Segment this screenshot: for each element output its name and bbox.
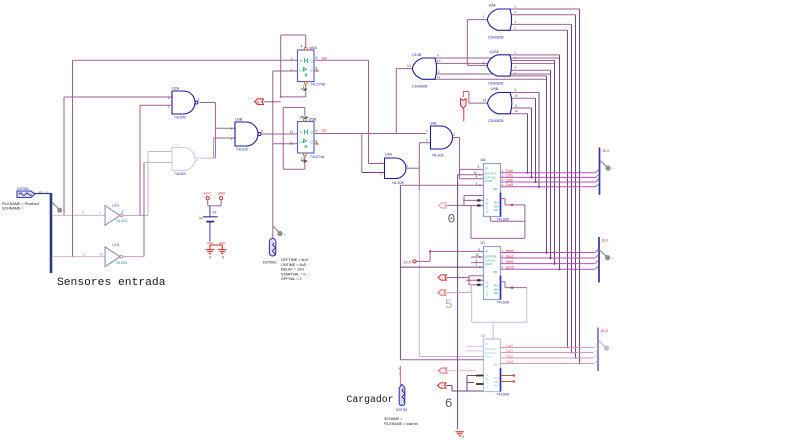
- svg-text:A: A: [486, 198, 488, 202]
- svg-text:74LS00: 74LS00: [174, 116, 186, 120]
- svg-text:CD4082B: CD4082B: [488, 35, 504, 39]
- svg-text:11: 11: [437, 70, 440, 74]
- svg-text:U10A: U10A: [490, 50, 500, 54]
- svg-text:5: 5: [445, 297, 453, 312]
- svg-text:MIN: MIN: [494, 209, 499, 212]
- svg-text:U2B: U2B: [172, 143, 180, 147]
- svg-text:U2A: U2A: [172, 87, 180, 91]
- svg-text:74LS10: 74LS10: [236, 148, 248, 152]
- svg-text:A: A: [486, 373, 488, 377]
- svg-text:4: 4: [515, 20, 517, 24]
- svg-text:CLK: CLK: [299, 141, 304, 144]
- svg-text:Cnt2: Cnt2: [506, 178, 513, 182]
- svg-text:6: 6: [445, 396, 453, 411]
- svg-text:11: 11: [515, 103, 518, 107]
- svg-text:1: 1: [483, 15, 485, 19]
- svg-text:U6: U6: [481, 158, 486, 162]
- svg-text:RCO: RCO: [494, 202, 500, 205]
- svg-text:2: 2: [515, 4, 517, 8]
- svg-text:74LS74A: 74LS74A: [311, 82, 326, 86]
- svg-text:VDD: VDD: [218, 191, 226, 195]
- svg-text:4: 4: [515, 66, 517, 70]
- svg-text:Cnt1: Cnt1: [506, 174, 513, 178]
- svg-text:74LS90: 74LS90: [497, 393, 510, 397]
- svg-text:VCC: VCC: [404, 260, 412, 264]
- svg-text:9: 9: [82, 211, 84, 215]
- svg-text:Cargador: Cargador: [347, 394, 394, 405]
- svg-text:Car2: Car2: [506, 354, 514, 358]
- svg-text:D: D: [486, 293, 488, 297]
- svg-text:CD4082B: CD4082B: [488, 119, 504, 123]
- svg-text:3: 3: [407, 164, 409, 168]
- svg-text:5: 5: [515, 26, 517, 30]
- svg-text:MIN: MIN: [494, 385, 499, 388]
- svg-text:10: 10: [437, 59, 441, 63]
- svg-text:74LS08: 74LS08: [392, 181, 404, 185]
- svg-text:VCC: VCC: [204, 191, 212, 195]
- svg-text:U4B: U4B: [430, 122, 438, 126]
- svg-text:CLK: CLK: [299, 70, 304, 73]
- svg-text:U4A: U4A: [385, 153, 393, 157]
- svg-text:B: B: [486, 285, 488, 289]
- svg-text:6: 6: [261, 130, 263, 134]
- svg-text:C: C: [486, 381, 488, 385]
- svg-text:11: 11: [290, 141, 294, 145]
- svg-text:DSTIM: DSTIM: [396, 408, 407, 412]
- svg-text:D: D: [486, 385, 488, 389]
- svg-text:2: 2: [122, 210, 124, 214]
- svg-text:5: 5: [478, 165, 480, 169]
- svg-text:QB: QB: [493, 187, 497, 191]
- svg-text:DELAY = 10m: DELAY = 10m: [281, 268, 304, 272]
- svg-text:DSTIM: DSTIM: [17, 187, 28, 191]
- svg-text:11: 11: [82, 253, 86, 257]
- svg-text:2: 2: [380, 172, 382, 176]
- svg-text:J0-0: J0-0: [602, 149, 609, 153]
- svg-text:10: 10: [515, 94, 519, 98]
- svg-text:MAX: MAX: [494, 381, 500, 384]
- svg-text:JP: JP: [485, 167, 488, 171]
- svg-text:OPPVAL = 1: OPPVAL = 1: [281, 277, 302, 281]
- svg-text:74LS04: 74LS04: [116, 219, 128, 223]
- svg-text:U8: U8: [481, 334, 486, 338]
- svg-text:A: A: [486, 281, 488, 285]
- svg-text:J0-2: J0-2: [601, 329, 608, 333]
- svg-text:3: 3: [515, 10, 517, 14]
- svg-text:Sensores entrada: Sensores entrada: [57, 277, 166, 289]
- svg-text:12: 12: [437, 75, 441, 79]
- svg-text:SCHNAME =: SCHNAME =: [2, 206, 24, 210]
- svg-text:RCO: RCO: [494, 285, 500, 288]
- svg-text:Sen0: Sen0: [506, 249, 514, 253]
- svg-text:1: 1: [303, 85, 305, 89]
- svg-text:12: 12: [515, 109, 519, 113]
- svg-text:Q0: Q0: [322, 56, 327, 60]
- svg-text:SCNAME =: SCNAME =: [384, 417, 402, 421]
- svg-text:Q1: Q1: [322, 129, 327, 133]
- svg-text:12: 12: [290, 130, 294, 134]
- svg-text:1: 1: [399, 367, 401, 371]
- svg-text:JP: JP: [485, 250, 488, 254]
- svg-text:5: 5: [515, 71, 517, 75]
- svg-text:13: 13: [301, 157, 305, 161]
- svg-text:1: 1: [483, 61, 485, 65]
- svg-text:Sen3: Sen3: [506, 266, 514, 270]
- svg-text:CLR CLK: CLR CLK: [485, 351, 496, 355]
- svg-text:1: 1: [168, 96, 170, 100]
- svg-text:D: D: [486, 210, 488, 214]
- svg-text:3: 3: [198, 98, 200, 102]
- svg-text:U3B: U3B: [235, 118, 243, 122]
- svg-text:0: 0: [462, 435, 464, 439]
- svg-text:Car0: Car0: [506, 344, 514, 348]
- svg-text:U1A: U1A: [112, 203, 120, 207]
- svg-text:13: 13: [407, 64, 411, 68]
- svg-text:Car1: Car1: [506, 349, 514, 353]
- svg-text:MAX: MAX: [494, 288, 500, 291]
- svg-text:J0-1: J0-1: [602, 239, 609, 243]
- svg-text:U9A: U9A: [489, 4, 497, 8]
- svg-text:CLR CLK: CLR CLK: [485, 175, 496, 179]
- svg-text:MAX: MAX: [494, 205, 500, 208]
- svg-text:13: 13: [483, 99, 487, 103]
- svg-text:5: 5: [316, 56, 318, 60]
- svg-text:1: 1: [231, 127, 233, 131]
- svg-text:IN: IN: [257, 100, 260, 104]
- svg-text:U7: U7: [481, 241, 486, 245]
- svg-text:ONTIME = 5uS: ONTIME = 5uS: [281, 263, 307, 267]
- svg-text:74LS04: 74LS04: [116, 261, 128, 265]
- svg-text:1: 1: [99, 211, 101, 215]
- svg-text:DCNTR A: DCNTR A: [485, 255, 497, 259]
- svg-text:Cnt0: Cnt0: [506, 169, 513, 173]
- svg-text:2: 2: [515, 50, 517, 54]
- svg-text:DSTIM2: DSTIM2: [263, 260, 277, 264]
- svg-text:V1: V1: [213, 210, 217, 214]
- svg-text:1: 1: [426, 129, 428, 133]
- svg-text:JP: JP: [485, 342, 488, 346]
- svg-text:CD4082B: CD4082B: [488, 81, 504, 85]
- svg-text:0: 0: [209, 255, 211, 259]
- svg-text:10: 10: [99, 253, 103, 257]
- svg-text:LOAD: LOAD: [485, 262, 492, 266]
- svg-text:1: 1: [399, 372, 401, 376]
- svg-text:RCO: RCO: [494, 377, 500, 380]
- svg-text:2: 2: [426, 139, 428, 143]
- svg-text:QB: QB: [493, 363, 497, 367]
- svg-text:2: 2: [291, 58, 293, 62]
- svg-text:FILENAME = load.txt: FILENAME = load.txt: [384, 422, 418, 426]
- svg-text:U5B: U5B: [309, 117, 317, 121]
- svg-text:74LS90: 74LS90: [497, 301, 510, 305]
- svg-text:OFFTIME = 5uS: OFFTIME = 5uS: [281, 258, 308, 262]
- svg-text:v: v: [284, 232, 286, 236]
- svg-text:DCNTR A: DCNTR A: [485, 172, 497, 176]
- svg-text:B: B: [486, 202, 488, 206]
- svg-text:LOAD: LOAD: [485, 179, 492, 183]
- svg-text:74LS74A: 74LS74A: [310, 155, 325, 159]
- svg-text:1: 1: [380, 160, 382, 164]
- svg-text:3: 3: [453, 133, 455, 137]
- svg-text:Car3: Car3: [506, 360, 514, 364]
- svg-text:74LS08: 74LS08: [432, 153, 444, 157]
- svg-text:10: 10: [299, 116, 303, 120]
- svg-text:0: 0: [222, 255, 224, 259]
- svg-text:U10B: U10B: [412, 53, 422, 57]
- svg-text:U1B: U1B: [112, 243, 120, 247]
- svg-text:B: B: [486, 377, 488, 381]
- svg-text:U5A: U5A: [310, 46, 318, 50]
- svg-text:FILENAME = Prueba.it: FILENAME = Prueba.it: [2, 202, 39, 206]
- svg-text:Sen1: Sen1: [506, 254, 514, 258]
- svg-text:DCNTR A: DCNTR A: [485, 347, 497, 351]
- svg-text:0: 0: [448, 211, 456, 226]
- svg-text:C: C: [486, 289, 488, 293]
- svg-text:CLR CLK: CLR CLK: [485, 258, 496, 262]
- svg-text:QB: QB: [493, 270, 497, 274]
- svg-text:9: 9: [515, 88, 517, 92]
- svg-text:74LS00: 74LS00: [174, 172, 186, 176]
- svg-text:4: 4: [301, 45, 303, 49]
- svg-text:C: C: [486, 206, 488, 210]
- svg-text:Sen2: Sen2: [506, 260, 514, 264]
- svg-text:Cnt3: Cnt3: [506, 183, 513, 187]
- svg-text:U9B: U9B: [491, 87, 499, 91]
- svg-text:9: 9: [437, 54, 439, 58]
- svg-text:STARTVAL = 0: STARTVAL = 0: [281, 272, 306, 276]
- svg-text:CD4082B: CD4082B: [412, 85, 428, 89]
- svg-text:9: 9: [316, 129, 318, 133]
- svg-text:MIN: MIN: [494, 292, 499, 295]
- svg-text:2: 2: [231, 137, 233, 141]
- svg-text:LOAD: LOAD: [485, 355, 492, 359]
